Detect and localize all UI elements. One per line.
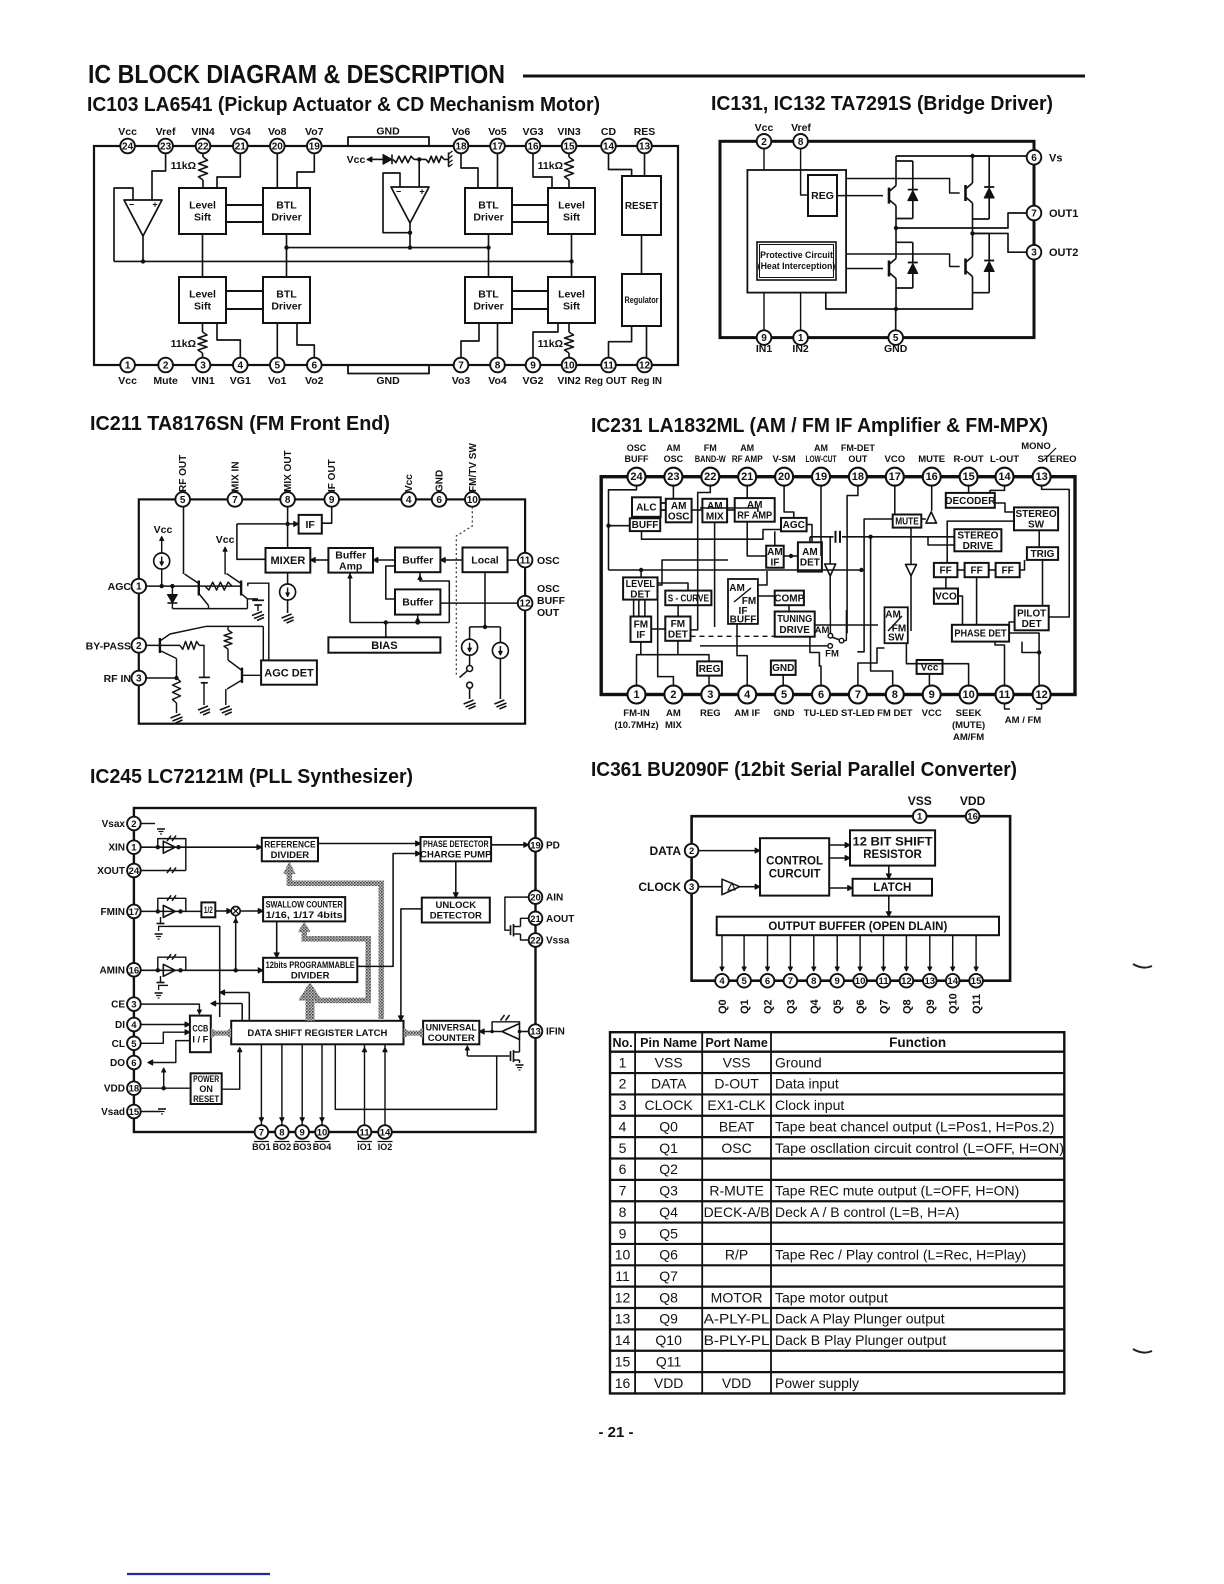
svg-text:2: 2	[670, 689, 676, 701]
wire AM IF to AM DET link	[784, 555, 798, 557]
diode AGC	[171, 586, 173, 594]
svg-text:COUNTER: COUNTER	[428, 1033, 475, 1044]
wire stereo drive left	[928, 537, 954, 545]
wire S-CURVE to FM DET	[677, 605, 679, 616]
ground Q4	[220, 706, 230, 710]
wire Q4 base to AGC DET	[242, 674, 261, 676]
svg-text:24: 24	[129, 866, 140, 877]
svg-text:5: 5	[619, 1140, 627, 1156]
svg-text:AM: AM	[747, 500, 763, 511]
pin 13	[637, 139, 652, 154]
svg-text:No.: No.	[612, 1036, 632, 1050]
svg-text:PHASE DETECTOR: PHASE DETECTOR	[423, 839, 489, 850]
wire shift to latch	[888, 866, 890, 874]
wire BTL bottom-right to pin7	[461, 323, 479, 358]
current source under MIXER	[287, 573, 289, 584]
svg-text:5: 5	[741, 976, 747, 987]
svg-text:11kΩ: 11kΩ	[171, 338, 196, 350]
svg-text:FF: FF	[940, 566, 952, 577]
svg-text:Sift: Sift	[194, 301, 211, 313]
svg-text:DETECTOR: DETECTOR	[430, 911, 482, 922]
wire Q1 collector to pin5	[183, 507, 185, 574]
wire pin20 to AGC	[784, 485, 794, 518]
svg-text:19: 19	[530, 840, 541, 851]
svg-text:Reg OUT: Reg OUT	[585, 376, 627, 387]
svg-text:3: 3	[707, 689, 713, 701]
svg-text:6: 6	[436, 495, 442, 506]
svg-text:Level: Level	[558, 200, 585, 212]
svg-text:6: 6	[619, 1161, 627, 1177]
svg-text:RF AMP: RF AMP	[737, 511, 772, 522]
svg-text:MIX: MIX	[706, 511, 724, 522]
svg-text:11: 11	[520, 556, 531, 567]
diode middle	[383, 155, 392, 165]
svg-text:AGC: AGC	[108, 581, 132, 593]
svg-text:Protective Circuit: Protective Circuit	[760, 250, 833, 260]
pin 2	[685, 844, 699, 858]
pin 5	[175, 492, 190, 507]
svg-text:MIXER: MIXER	[270, 555, 305, 567]
pin 23	[158, 139, 173, 154]
svg-text:R/P: R/P	[725, 1247, 748, 1263]
wire pin7 route	[858, 648, 885, 687]
svg-text:8: 8	[892, 689, 898, 701]
svg-text:14: 14	[615, 1332, 631, 1348]
block AM RF AMP	[735, 498, 775, 522]
pin 8	[275, 1125, 289, 1139]
block PHASE DET	[952, 625, 1009, 642]
wire GND to pin5	[782, 675, 784, 687]
pin 24	[120, 139, 135, 154]
svg-text:2: 2	[136, 641, 142, 652]
svg-text:EX1-CLK: EX1-CLK	[707, 1097, 766, 1113]
wire AMIN line	[141, 969, 259, 971]
svg-text:BO3: BO3	[293, 1142, 312, 1152]
pin 17	[490, 139, 505, 154]
svg-text:SWALLOW COUNTER: SWALLOW COUNTER	[266, 899, 343, 910]
block BTL Driver top-right	[465, 188, 512, 234]
block UNIVERSAL COUNTER	[423, 1021, 479, 1045]
table row 5	[610, 1136, 1064, 1138]
wire long mid horizontal	[658, 560, 729, 585]
svg-text:OSC: OSC	[721, 1140, 751, 1156]
svg-text:21: 21	[530, 914, 541, 925]
block Level Sift top-right	[548, 188, 595, 234]
pin 4	[721, 935, 723, 969]
wire REG top	[641, 655, 709, 662]
pin 9	[923, 686, 941, 704]
svg-text:+: +	[152, 200, 157, 210]
svg-text:OUTPUT BUFFER (OPEN DLAIN): OUTPUT BUFFER (OPEN DLAIN)	[768, 921, 947, 933]
wire XOUT	[141, 870, 186, 872]
wire pin23 to op-amp +	[152, 153, 166, 200]
pin 21	[529, 912, 543, 926]
pin 11	[518, 553, 533, 568]
wire BTL column right	[488, 234, 490, 277]
svg-text:DECODER: DECODER	[945, 496, 996, 507]
current source switch branch	[469, 627, 471, 640]
wire MUTE down through triangle	[910, 528, 912, 631]
IC103 outline	[94, 146, 678, 365]
table row 7	[610, 1179, 1064, 1181]
block AM IF	[766, 546, 784, 568]
wire pin20 to BTL	[276, 153, 278, 188]
svg-text:AM: AM	[802, 547, 818, 558]
transistor Q1 with diode top-left	[888, 188, 891, 204]
pin 15	[975, 935, 977, 969]
wire FF1 to VCO	[945, 577, 947, 588]
op-amp left	[124, 200, 162, 236]
svg-text:CHARGE PUMP: CHARGE PUMP	[420, 850, 492, 861]
block CCB I/F	[190, 1016, 211, 1053]
wire top rail to Vs	[896, 155, 1027, 157]
table row 3	[610, 1093, 1064, 1095]
svg-text:Vref: Vref	[156, 126, 176, 138]
wire to MIXER left	[237, 524, 266, 559]
svg-text:DRIVE: DRIVE	[779, 625, 810, 636]
svg-text:LEVEL: LEVEL	[626, 579, 655, 590]
pin 4	[738, 686, 756, 704]
svg-text:Local: Local	[471, 555, 499, 567]
svg-text:3: 3	[136, 674, 142, 685]
svg-text:AGC: AGC	[783, 520, 805, 531]
pin 2	[158, 358, 173, 373]
svg-text:11: 11	[603, 361, 614, 372]
svg-text:DO: DO	[110, 1058, 125, 1069]
IC245 outline	[134, 808, 536, 1132]
wire pin24 to BUFF and bus	[609, 485, 637, 571]
wire pin14 to DECODER	[990, 485, 1005, 493]
svg-text:7: 7	[788, 976, 793, 987]
svg-text:AM/FM: AM/FM	[953, 732, 984, 743]
svg-text:22: 22	[704, 471, 716, 483]
svg-text:VCO: VCO	[885, 454, 906, 465]
pin 2	[132, 638, 147, 653]
svg-text:Vcc: Vcc	[154, 524, 173, 536]
block SWALLOW COUNTER	[263, 897, 345, 921]
svg-text:SEEK: SEEK	[956, 708, 982, 719]
wire Level Sift to pin4	[217, 323, 240, 358]
wire base lead BL	[846, 268, 883, 270]
svg-text:OUT1: OUT1	[1049, 208, 1078, 220]
svg-text:Level: Level	[189, 200, 216, 212]
svg-text:Tape oscllation circuit contro: Tape oscllation circuit control (L=OFF, …	[775, 1140, 1064, 1156]
pin 7	[255, 1125, 269, 1139]
block PHASE DETECTOR CHARGE PUMP	[421, 837, 492, 861]
wire Local bottom tee	[484, 572, 486, 627]
svg-text:OSC: OSC	[664, 454, 684, 464]
pin 22	[701, 468, 719, 486]
svg-text:MOTOR: MOTOR	[711, 1289, 763, 1305]
capacitor near Q2	[247, 598, 258, 600]
svg-text:11: 11	[615, 1268, 630, 1284]
svg-text:VG2: VG2	[522, 375, 543, 387]
pin 16	[127, 963, 141, 977]
wire left column mid	[895, 219, 897, 243]
pin 7	[849, 686, 867, 704]
svg-text:10: 10	[855, 976, 866, 987]
svg-text:CD: CD	[601, 126, 617, 138]
bus reference divider to data shift register	[289, 873, 381, 1019]
svg-text:BUFF: BUFF	[625, 454, 649, 464]
pin 12	[518, 596, 533, 611]
block Local	[463, 548, 508, 573]
svg-text:Vo2: Vo2	[305, 375, 324, 387]
wire BTL-Level links top-right	[512, 204, 548, 206]
svg-text:Vo1: Vo1	[268, 375, 287, 387]
svg-text:REG: REG	[811, 190, 834, 202]
table row 11	[610, 1264, 1064, 1266]
IC211 outline	[139, 499, 525, 723]
wire Buffer lower to pin12	[440, 602, 517, 604]
svg-text:1: 1	[131, 843, 137, 854]
wire swallow to divider	[276, 921, 278, 953]
wire BTL to pin5	[276, 323, 278, 358]
wire Q2 emitter	[246, 599, 248, 609]
svg-text:22: 22	[530, 936, 541, 947]
svg-text:- 21 -: - 21 -	[598, 1424, 633, 1441]
svg-text:Vsax: Vsax	[102, 819, 126, 830]
pin 1	[120, 358, 135, 373]
wire pin11 to PHASE DET	[995, 642, 1005, 687]
svg-text:BEAT: BEAT	[719, 1118, 755, 1134]
pin 10	[859, 935, 861, 969]
table row 10	[610, 1243, 1064, 1245]
crystal feedback loop	[158, 839, 186, 871]
svg-text:VG1: VG1	[230, 375, 251, 387]
wire phase detector to unlock detector	[455, 861, 457, 893]
wire mos to AOUT	[521, 918, 529, 926]
block REG	[808, 175, 837, 216]
mixer circle	[231, 907, 240, 916]
pin 21	[233, 139, 248, 154]
block TUNING DRIVE	[775, 612, 815, 637]
wire to Buffer lower	[417, 615, 419, 623]
block BUFF	[630, 518, 660, 531]
svg-text:6: 6	[131, 1058, 136, 1069]
svg-text:+: +	[419, 187, 424, 197]
svg-text:11: 11	[878, 976, 889, 987]
AMIN amp	[163, 964, 175, 976]
wire AGC det link	[248, 583, 269, 660]
svg-text:1/2: 1/2	[204, 905, 213, 916]
svg-text:Q2: Q2	[659, 1161, 678, 1177]
svg-text:AM IF: AM IF	[734, 708, 760, 719]
pin 12	[637, 358, 652, 373]
svg-text:9: 9	[619, 1225, 627, 1241]
pin 3	[127, 997, 141, 1011]
svg-text:R-OUT: R-OUT	[954, 454, 984, 465]
svg-text:15: 15	[129, 1107, 140, 1118]
table column lines	[634, 1032, 636, 1393]
svg-text:DECK-A/B: DECK-A/B	[704, 1204, 770, 1220]
svg-text:19: 19	[309, 142, 321, 153]
pin 7	[1027, 206, 1042, 221]
pin 3	[196, 358, 211, 373]
wire Level Sift column left	[202, 234, 204, 277]
svg-text:VDD: VDD	[654, 1375, 684, 1391]
svg-text:IF: IF	[306, 519, 316, 531]
wire BUFF to AGC route	[642, 530, 782, 540]
pin 8	[280, 492, 295, 507]
svg-text:1/16, 1/17 4bits: 1/16, 1/17 4bits	[266, 910, 343, 921]
svg-text:15: 15	[615, 1353, 631, 1369]
pin 8	[813, 935, 815, 969]
wire pin19 long vertical	[820, 485, 822, 557]
wire IF input line	[237, 523, 294, 525]
pin 11	[358, 1125, 372, 1139]
svg-text:16: 16	[967, 812, 978, 823]
svg-text:Driver: Driver	[473, 212, 503, 224]
wire pin9 to control box	[763, 293, 765, 331]
svg-text:DET: DET	[668, 629, 688, 640]
wire mixer to swallow counter	[240, 910, 258, 912]
pin 12	[1033, 686, 1051, 704]
wire buffer top bottom link	[420, 572, 449, 622]
svg-text:SW: SW	[888, 633, 905, 644]
svg-text:Tape motor output: Tape motor output	[775, 1289, 888, 1305]
resistor between Q1 Q2	[205, 582, 232, 590]
svg-text:8: 8	[285, 495, 291, 506]
op-amp middle	[391, 187, 429, 223]
svg-text:VCC: VCC	[922, 708, 942, 719]
pin 5	[127, 1037, 141, 1051]
svg-text:BY-PASS: BY-PASS	[86, 641, 131, 653]
block MIXER	[266, 548, 311, 573]
pin 9	[295, 1125, 309, 1139]
current source right branch	[499, 627, 501, 643]
svg-text:20: 20	[272, 142, 284, 153]
svg-text:2: 2	[131, 819, 136, 830]
svg-text:Q8: Q8	[901, 999, 913, 1014]
wire pin15 to DECODER	[968, 485, 970, 493]
pin 24	[628, 468, 646, 486]
svg-text:11kΩ: 11kΩ	[171, 160, 196, 172]
pin 1	[132, 579, 147, 594]
svg-text:VIN2: VIN2	[557, 375, 581, 387]
block LEVEL DET	[623, 577, 657, 599]
svg-text:16: 16	[527, 142, 539, 153]
svg-text:GND: GND	[884, 343, 908, 355]
AOUT Vssa mos	[510, 925, 512, 935]
svg-text:OSC: OSC	[627, 443, 647, 453]
block AM MIX	[702, 499, 727, 523]
wire feedback into CCB	[216, 1003, 243, 1005]
pin 14	[952, 935, 954, 969]
svg-text:BTL: BTL	[478, 289, 499, 301]
block Buffer top	[395, 548, 440, 573]
block AM OSC	[666, 499, 692, 523]
wire Vsad ground	[141, 1111, 160, 1113]
svg-text:10: 10	[317, 1128, 328, 1139]
svg-text:REG: REG	[699, 664, 721, 675]
IC131 outline	[720, 141, 1034, 337]
wire AM IF to AGC	[774, 531, 776, 545]
wires data shift register outputs	[260, 1044, 262, 1125]
wire CE to CCB	[141, 1004, 200, 1011]
wire FF3 to TRIG route	[1020, 560, 1025, 570]
block Buffer lower	[395, 589, 440, 614]
wire bus2 with capacitor	[810, 536, 834, 538]
svg-text:Driver: Driver	[271, 301, 301, 313]
svg-text:DI: DI	[115, 1020, 125, 1031]
svg-text:9: 9	[929, 689, 935, 701]
svg-text:Driver: Driver	[473, 301, 503, 313]
pin 6	[307, 358, 322, 373]
svg-text:AM: AM	[740, 443, 754, 453]
pin 5	[888, 330, 903, 345]
svg-text:4: 4	[619, 1118, 627, 1134]
svg-text:FM-IN: FM-IN	[623, 708, 650, 719]
wire COMP to TUNING DRIVE	[788, 605, 790, 611]
block DATA SHIFT REGISTER LATCH	[231, 1021, 403, 1045]
svg-text:A-PLY-PL: A-PLY-PL	[704, 1311, 770, 1327]
wire AM/FM IF BUFF to COMP	[758, 595, 775, 597]
pin 16	[966, 809, 980, 823]
svg-text:Dack B Play Plunger output: Dack B Play Plunger output	[775, 1332, 946, 1348]
svg-text:MONO: MONO	[1021, 441, 1051, 452]
wire pin9 to IF	[322, 507, 332, 524]
transistor Q3	[159, 638, 161, 653]
svg-text:FM/TV SW: FM/TV SW	[468, 443, 479, 492]
block AGC	[781, 518, 807, 531]
wire ALC to AM OSC links	[661, 502, 666, 504]
svg-text:Clock input: Clock input	[775, 1097, 844, 1113]
svg-text:POWER: POWER	[193, 1074, 219, 1084]
svg-text:5: 5	[275, 361, 281, 372]
block UNLOCK DETECTOR	[422, 898, 490, 923]
svg-text:2: 2	[689, 846, 694, 857]
svg-text:Vcc: Vcc	[755, 122, 774, 134]
svg-text:MUTE: MUTE	[918, 454, 945, 465]
wire feedback line 1	[168, 926, 220, 1017]
svg-text:Reg IN: Reg IN	[631, 376, 662, 387]
wire Level-BTL links top-left	[226, 204, 263, 206]
svg-text:Q7: Q7	[659, 1268, 678, 1284]
svg-text:STEREO: STEREO	[1015, 509, 1056, 520]
svg-text:21: 21	[235, 142, 247, 153]
pin 5	[775, 686, 793, 704]
block VCO	[934, 589, 958, 604]
svg-text:7: 7	[1031, 209, 1037, 220]
AMIN mos gnd	[160, 976, 162, 983]
table row 6	[610, 1157, 1064, 1159]
svg-text:IF: IF	[771, 557, 780, 568]
svg-text:Q10: Q10	[948, 993, 960, 1014]
svg-text:FM: FM	[671, 619, 685, 630]
svg-text:OSC: OSC	[537, 583, 560, 595]
svg-text:19: 19	[815, 471, 827, 483]
svg-text:DATA: DATA	[651, 1076, 687, 1092]
wire pin21 to Level Sift	[217, 153, 240, 188]
bus data shift register to universal counter	[404, 1031, 422, 1036]
wire Q3 emitter to pin3 node	[176, 659, 178, 679]
wire comp top route	[700, 508, 758, 512]
wire lower bus	[114, 260, 572, 262]
svg-text:VDD: VDD	[960, 794, 986, 808]
wire FM DET dashed to TUNING DRIVE	[691, 635, 775, 637]
block CONTROL CURCUIT	[760, 838, 829, 895]
svg-text:IC245 LC72121M (PLL Synthesi: IC245 LC72121M (PLL Synthesizer)	[90, 765, 413, 788]
svg-text:Sift: Sift	[563, 301, 580, 313]
wire pin9 jog	[533, 323, 558, 358]
svg-text:6: 6	[312, 361, 318, 372]
pin 19	[812, 468, 830, 486]
svg-text:BAND-W: BAND-W	[695, 454, 726, 464]
svg-text:Vcc: Vcc	[404, 474, 415, 492]
svg-text:AM: AM	[729, 583, 745, 594]
wire OUT2	[973, 232, 991, 234]
